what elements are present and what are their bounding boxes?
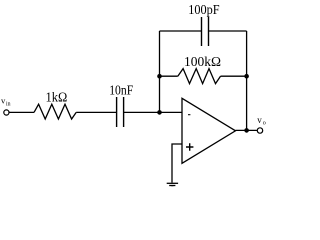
svg-text:v: v (257, 115, 262, 125)
svg-text:1kΩ: 1kΩ (46, 91, 68, 106)
svg-text:o: o (263, 120, 266, 126)
svg-text:10nF: 10nF (109, 83, 133, 98)
svg-text:100kΩ: 100kΩ (184, 55, 221, 70)
svg-text:in: in (6, 101, 11, 107)
svg-text:100pF: 100pF (188, 3, 220, 18)
